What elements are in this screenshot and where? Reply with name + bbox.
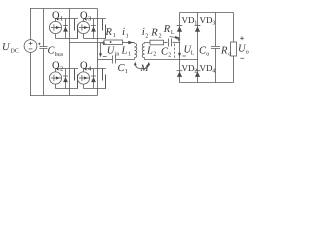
- capacitor of Q3 cell: [103, 19, 106, 39]
- resistor Ro box: [231, 42, 237, 56]
- switch Q2 symbol: [51, 75, 54, 81]
- wire: secondary bottom to rectifier mid leg: [145, 59, 198, 61]
- switch Q3 cell stubs: [84, 19, 107, 39]
- svg-text:i: i: [122, 26, 125, 38]
- switch Q1 cell stubs: [56, 19, 79, 39]
- diode VD3: [195, 25, 201, 27]
- svg-text:VD: VD: [182, 63, 195, 73]
- wire: Ro branch upper: [233, 13, 235, 43]
- switch Q3 symbol: [79, 24, 82, 30]
- svg-text:2: 2: [168, 53, 171, 59]
- inductor L1 coil: [135, 43, 137, 57]
- resistor R1 box: [104, 40, 123, 45]
- voltage Uo plus mark: [240, 36, 244, 40]
- capacitor C1 plates: [113, 56, 116, 64]
- svg-text:L: L: [146, 46, 153, 57]
- wire: Co branch lower: [215, 49, 217, 83]
- svg-text:2: 2: [153, 52, 156, 58]
- wire: Co branch upper: [215, 13, 217, 47]
- svg-text:VD: VD: [182, 15, 195, 25]
- svg-text:R: R: [220, 46, 228, 57]
- svg-text:L: L: [121, 46, 128, 57]
- svg-text:o: o: [246, 50, 249, 56]
- svg-text:L: L: [191, 51, 195, 57]
- voltage Uo minus mark: [240, 57, 244, 59]
- wire: rectifier top rail: [180, 12, 234, 14]
- svg-text:2: 2: [145, 34, 148, 40]
- switch Q4 cell stubs: [84, 69, 107, 89]
- svg-text:1: 1: [125, 69, 128, 75]
- wire: L2 top corner: [145, 42, 151, 45]
- wire: node a to R1: [70, 42, 105, 44]
- svg-text:1: 1: [194, 21, 197, 27]
- capacitor Cbus plates: [40, 47, 48, 49]
- diode D2 (antiparallel of Q2): [65, 69, 67, 89]
- svg-text:M: M: [140, 64, 150, 74]
- svg-text:4: 4: [212, 69, 215, 75]
- svg-text:4: 4: [88, 66, 92, 73]
- switch Q1 leads: [55, 19, 57, 39]
- switch Q2 cell stubs: [56, 69, 79, 89]
- wire: R2 to C2: [164, 42, 168, 44]
- svg-text:1: 1: [60, 16, 63, 23]
- voltage source UDC circle: [24, 40, 37, 53]
- switch Q3 leads: [83, 19, 85, 39]
- wire: rectifier bottom rail: [180, 82, 234, 84]
- diode D4 (antiparallel of Q4): [93, 69, 95, 89]
- voltage source plus mark: [29, 42, 33, 46]
- svg-text:Q: Q: [80, 61, 88, 72]
- dashed boundary line: [174, 44, 176, 58]
- wire: L1 top corner: [134, 42, 136, 45]
- svg-text:bus: bus: [55, 51, 64, 58]
- svg-text:2: 2: [60, 66, 63, 73]
- svg-text:3: 3: [212, 21, 215, 27]
- wire: L2 bottom lead: [144, 58, 146, 60]
- diode D1 (antiparallel of Q1): [65, 19, 67, 39]
- svg-text:R: R: [163, 24, 171, 35]
- svg-text:2: 2: [194, 69, 197, 75]
- resistor R2 box: [150, 40, 164, 45]
- svg-text:DC: DC: [11, 49, 19, 55]
- switch Q4 symbol: [79, 75, 82, 81]
- wire: C1 to L1 bottom: [116, 59, 135, 61]
- capacitor Co plates: [211, 47, 220, 49]
- capacitor Cbus plus polarity mark: [38, 43, 40, 45]
- svg-text:o: o: [206, 52, 209, 58]
- svg-text:1: 1: [113, 33, 116, 39]
- capacitor of Q4 cell: [103, 69, 106, 89]
- wire: Ro branch lower: [233, 56, 235, 83]
- switch Q1 symbol: [51, 24, 54, 30]
- voltage UL arrowhead: [178, 53, 181, 57]
- wire: rectifier middle leg: [197, 13, 199, 83]
- switch Q2 circle: [49, 72, 61, 84]
- voltage Uin plus mark: [102, 41, 106, 45]
- wire: bridge leg B: [97, 9, 99, 96]
- wire: source branch upper lead: [30, 9, 32, 40]
- svg-text:in: in: [115, 52, 120, 58]
- svg-text:L: L: [171, 30, 175, 36]
- svg-text:2: 2: [159, 34, 162, 40]
- capacitor C2 plates: [169, 39, 172, 47]
- wire: source branch lower lead: [30, 53, 32, 96]
- svg-text:Q: Q: [52, 61, 60, 72]
- diode D3 (antiparallel of Q3): [93, 19, 95, 39]
- wire: Cbus branch lower lead: [43, 49, 45, 96]
- diode VD1: [177, 25, 183, 27]
- capacitor of Q1 cell: [75, 19, 78, 39]
- svg-text:3: 3: [88, 16, 91, 23]
- voltage source minus mark: [29, 48, 33, 50]
- wire: Cbus branch upper lead: [43, 9, 45, 47]
- wire: C2 to rectifier: [173, 42, 180, 44]
- wire: bridge leg A: [69, 9, 71, 96]
- svg-text:Q: Q: [80, 11, 88, 22]
- voltage UL plus mark: [177, 37, 181, 41]
- wire: node b to C1: [98, 59, 113, 61]
- inductor L2 coil: [142, 43, 144, 57]
- voltage UL minus mark: [182, 55, 186, 57]
- wire: R1 to L1 with i1 arrow: [123, 42, 135, 44]
- diode VD4: [195, 70, 201, 72]
- svg-text:R: R: [105, 27, 113, 38]
- switch Q4 leads: [83, 69, 85, 89]
- mutual inductance M arrow: [135, 64, 149, 69]
- voltage Uin minus mark: [103, 55, 107, 57]
- wire: inverter bottom rail: [30, 95, 98, 97]
- svg-text:VD: VD: [200, 15, 213, 25]
- svg-text:o: o: [228, 52, 231, 58]
- svg-text:R: R: [150, 28, 158, 39]
- svg-text:VD: VD: [200, 63, 213, 73]
- svg-text:1: 1: [126, 34, 129, 40]
- svg-text:1: 1: [128, 52, 131, 58]
- switch Q1 circle: [49, 21, 61, 33]
- switch Q4 circle: [77, 72, 89, 84]
- wire: inverter top rail: [30, 8, 98, 10]
- switch Q2 leads: [55, 69, 57, 89]
- current i1 arrowhead: [128, 41, 133, 44]
- svg-text:Q: Q: [52, 11, 60, 22]
- wire: L1 bottom lead: [134, 58, 136, 60]
- capacitor of Q2 cell: [75, 69, 78, 89]
- switch Q3 circle: [77, 21, 89, 33]
- diode VD2: [177, 70, 183, 72]
- voltage Uin arrow: [100, 43, 102, 53]
- equivalent load RL arrow: [170, 36, 176, 39]
- wire: rectifier left leg: [179, 13, 181, 83]
